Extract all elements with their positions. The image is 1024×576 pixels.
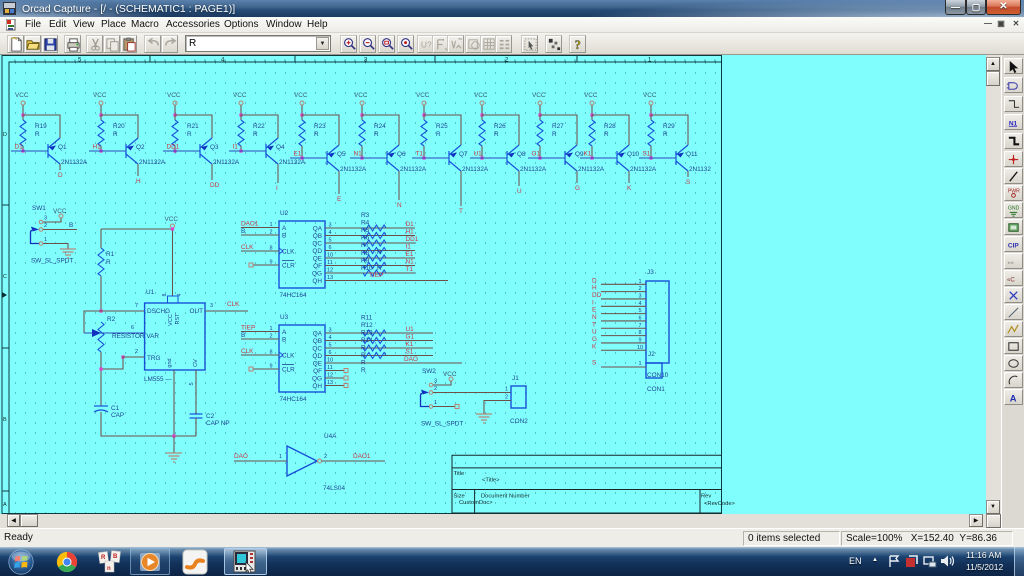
transistor Q6 2N1132A <box>387 145 399 171</box>
svg-text:R: R <box>361 367 366 374</box>
resistor R20 <box>100 115 102 120</box>
svg-text:CON1: CON1 <box>647 386 665 393</box>
svg-text:2N1132A: 2N1132A <box>340 166 367 173</box>
svg-text:QA: QA <box>313 331 323 338</box>
svg-text:9: 9 <box>638 337 641 343</box>
svg-text:S1: S1 <box>643 151 651 158</box>
svg-text:VCC: VCC <box>93 92 107 99</box>
svg-text:▸▸: ▸▸ <box>1008 259 1015 266</box>
wire U2.QC net DD1 <box>325 242 415 244</box>
resistor R6 zigzag <box>363 248 386 254</box>
svg-text:VCC: VCC <box>532 92 546 99</box>
svg-text:H1: H1 <box>93 144 102 151</box>
wire VCC stem Q9 <box>539 105 541 115</box>
switch SW2 actuator <box>421 390 429 395</box>
svg-text:CON2: CON2 <box>510 418 528 425</box>
svg-text:VCC: VCC <box>354 92 368 99</box>
svg-text:Q6: Q6 <box>397 151 406 158</box>
wire J1 pin2 to ground <box>484 401 511 415</box>
wire collector branch Q2 <box>101 115 138 138</box>
wire no-connect pad to U3.CLR <box>253 368 279 370</box>
svg-text:QB: QB <box>313 338 322 345</box>
resistor R14 zigzag <box>363 353 386 359</box>
transistor Q8 2N1132A <box>507 145 519 171</box>
wire VCC stem Q10 <box>591 105 593 115</box>
svg-text:DAO: DAO <box>404 356 418 363</box>
svg-text:74HC164: 74HC164 <box>280 292 307 299</box>
wire CV pin 5 <box>195 370 197 414</box>
svg-text:T1: T1 <box>406 266 414 273</box>
junction R21 top <box>173 113 176 116</box>
svg-text:CAP: CAP <box>111 412 124 419</box>
wire emitter stub Q10 <box>628 171 630 183</box>
svg-text:3: 3 <box>434 379 437 385</box>
wire U2.QD net I1 <box>325 250 415 252</box>
wire SW2 pin3 to VCC <box>433 381 451 385</box>
svg-text:2: 2 <box>505 395 508 401</box>
transistor Q1 2N1132A <box>48 138 60 164</box>
svg-text:1: 1 <box>279 454 282 460</box>
junction base node Q6 <box>360 156 363 159</box>
svg-text:DAO1: DAO1 <box>353 453 371 460</box>
svg-text:2: 2 <box>324 454 327 460</box>
transistor Q5 2N1132A <box>327 145 339 171</box>
wire U3.QA net U1 <box>325 332 433 334</box>
svg-text:VCC: VCC <box>584 92 598 99</box>
junction R26 top <box>480 113 483 116</box>
svg-text:G1: G1 <box>406 334 415 341</box>
wire U2.QF net N1 <box>325 265 415 267</box>
svg-text:U: U <box>517 188 522 195</box>
wire base net K1 <box>580 157 617 159</box>
junction base node Q10 <box>590 156 593 159</box>
inverter U4A 74LS04 <box>287 446 317 476</box>
svg-text:B: B <box>69 222 73 229</box>
wire emitter stub Q4 <box>277 164 279 183</box>
svg-text:1: 1 <box>44 237 47 243</box>
svg-text:Document Number: Document Number <box>481 494 530 500</box>
svg-text:QH: QH <box>312 278 322 285</box>
svg-text:DD1: DD1 <box>406 236 419 243</box>
svg-text:S: S <box>686 179 690 186</box>
svg-text:D: D <box>592 277 597 284</box>
svg-text:R: R <box>106 259 111 266</box>
svg-text:<Title>: <Title> <box>482 478 500 484</box>
resistor R7 zigzag <box>363 255 386 261</box>
IC U2 74HC164 box <box>279 221 325 288</box>
transistor Q9 2N1132A <box>565 145 577 171</box>
wire collector branch Q7 <box>424 115 461 145</box>
wire DAO1 to U2.A <box>241 227 279 229</box>
IC U3 74HC164 box <box>279 325 325 392</box>
resistor R1 <box>100 229 102 248</box>
svg-text:Q2: Q2 <box>136 144 145 151</box>
svg-text:R23: R23 <box>314 123 326 130</box>
zone dividers top <box>150 56 577 63</box>
transistor Q11 2N1132 <box>676 145 688 171</box>
junction R22 top <box>239 113 242 116</box>
wire U3.QD net S1 <box>325 355 433 357</box>
wire emitter stub Q9 <box>576 171 578 183</box>
svg-text:CLK: CLK <box>282 249 295 256</box>
svg-text:1: 1 <box>638 361 641 367</box>
svg-text:CAP NP: CAP NP <box>206 420 230 427</box>
svg-text:QF: QF <box>313 368 322 375</box>
svg-text:D: D <box>3 132 7 138</box>
svg-text:N: N <box>592 314 597 321</box>
junction TRG node <box>121 355 124 358</box>
svg-text:«C: «C <box>1007 276 1015 283</box>
wire emitter stub Q2 <box>137 164 139 176</box>
svg-text:2: 2 <box>638 286 641 292</box>
svg-text:R: R <box>101 555 106 561</box>
wire VCC stem Q7 <box>423 105 425 115</box>
svg-text:QF: QF <box>313 263 322 270</box>
svg-text:C1: C1 <box>111 405 120 412</box>
svg-text:3: 3 <box>638 293 641 299</box>
svg-text:QH: QH <box>312 383 322 390</box>
svg-text:R26: R26 <box>494 123 506 130</box>
svg-text:R29: R29 <box>663 123 675 130</box>
wire emitter stub Q1 <box>59 164 61 170</box>
svg-text:R: R <box>361 352 366 359</box>
svg-text:4: 4 <box>638 301 641 307</box>
svg-text:4: 4 <box>177 293 183 296</box>
ground symbol center <box>173 436 175 453</box>
wire U2.QE net E1 <box>325 257 415 259</box>
svg-text:6: 6 <box>131 325 134 331</box>
svg-text:R24: R24 <box>374 123 386 130</box>
svg-text:Q3: Q3 <box>210 144 219 151</box>
junction base node Q2 <box>99 149 102 152</box>
svg-text:U4A: U4A <box>324 433 337 440</box>
wire VCC stem Q1 <box>22 105 24 115</box>
wire OUT pin 3 <box>205 310 248 312</box>
resistor R24 <box>361 115 363 120</box>
wire collector branch Q4 <box>241 115 278 138</box>
svg-text:DSCHG: DSCHG <box>147 308 170 315</box>
resistor R29 <box>650 115 652 120</box>
svg-text:VCC: VCC <box>15 92 29 99</box>
svg-text:R: R <box>253 131 258 138</box>
svg-text:TIEP: TIEP <box>369 272 383 279</box>
svg-text:D: D <box>58 172 63 179</box>
wire U3.QF stub pad <box>325 370 344 372</box>
svg-text:DD: DD <box>592 292 602 299</box>
svg-text:C: C <box>3 274 7 280</box>
svg-text:E1: E1 <box>406 251 414 258</box>
svg-text:Size: Size <box>454 494 465 500</box>
op-amp U1 LM555 box <box>145 303 205 370</box>
resistor R11 zigzag <box>363 330 386 336</box>
svg-text:2: 2 <box>135 349 138 355</box>
svg-text:VCC: VCC <box>416 92 430 99</box>
wire TRG pin 2 <box>101 357 145 369</box>
ground symbol J1 <box>476 414 492 423</box>
wire base net U1 <box>470 157 507 159</box>
svg-text:1: 1 <box>638 279 641 285</box>
svg-text:VCC: VCC <box>167 92 181 99</box>
svg-text:S1: S1 <box>406 349 414 356</box>
junction R29 top <box>649 113 652 116</box>
wire base net N1 <box>350 157 387 159</box>
wire C2 bottom <box>195 418 197 436</box>
svg-text:A: A <box>282 225 287 232</box>
resistor R3 zigzag <box>363 225 386 231</box>
wire THR pin 6 / wiper <box>84 332 145 334</box>
svg-text:U1: U1 <box>146 289 155 296</box>
wire DSCHG pin 7 <box>84 311 145 333</box>
svg-text:B: B <box>282 337 286 344</box>
svg-text:CIP: CIP <box>1008 242 1020 249</box>
svg-text:R2: R2 <box>107 316 116 323</box>
svg-text:OUT: OUT <box>190 308 204 315</box>
wire collector branch Q3 <box>175 115 212 138</box>
svg-text:E: E <box>592 307 596 314</box>
wire base net G1 <box>528 157 565 159</box>
svg-text:TIEP: TIEP <box>241 325 255 332</box>
svg-text:3: 3 <box>44 216 47 222</box>
switch SW1 actuator <box>31 227 39 232</box>
svg-text:Q11: Q11 <box>686 151 698 158</box>
svg-text:RESISTOR VAR: RESISTOR VAR <box>112 333 159 340</box>
svg-text:G: G <box>592 336 597 343</box>
svg-text:R: R <box>663 131 668 138</box>
svg-text:CLR: CLR <box>282 263 295 270</box>
resistor R25 <box>423 115 425 120</box>
svg-text:R: R <box>377 265 382 272</box>
resistor R8 zigzag <box>363 263 386 269</box>
svg-text:QD: QD <box>312 248 322 255</box>
svg-text:5: 5 <box>638 308 641 314</box>
svg-text:VCC: VCC <box>233 92 247 99</box>
resistor R28 <box>591 115 593 120</box>
wire VCC stem Q11 <box>650 105 652 115</box>
svg-text:QC: QC <box>312 346 322 353</box>
svg-text:R: R <box>187 131 192 138</box>
svg-text:B: B <box>3 417 7 423</box>
wire emitter stub Q5 <box>338 171 340 194</box>
page border frame <box>2 56 722 515</box>
junction R27 top <box>538 113 541 116</box>
svg-text:2N1132A: 2N1132A <box>279 159 306 166</box>
wire SW1 pin3 to VCC <box>43 218 61 222</box>
svg-text:QE: QE <box>313 361 322 368</box>
svg-text:U1: U1 <box>474 151 483 158</box>
svg-text:Q5: Q5 <box>337 151 346 158</box>
svg-text:R: R <box>374 131 379 138</box>
svg-text:SW1: SW1 <box>32 205 46 212</box>
svg-text:U1: U1 <box>406 326 415 333</box>
svg-text:QA: QA <box>313 226 323 233</box>
svg-text:DD1: DD1 <box>167 144 180 151</box>
junction ground rail <box>172 434 175 437</box>
svg-text:VCC: VCC <box>474 92 488 99</box>
svg-text:R28: R28 <box>604 123 616 130</box>
wire J2 pin 1 net S <box>601 366 646 368</box>
svg-text:R: R <box>377 249 382 256</box>
junction base node Q8 <box>480 156 483 159</box>
svg-text:R: R <box>314 131 319 138</box>
svg-text:R22: R22 <box>253 123 265 130</box>
svg-text:B: B <box>241 332 245 339</box>
wire U3.QE net DAO <box>325 362 462 364</box>
wire base net DD1 <box>163 150 200 152</box>
svg-text:74HC164: 74HC164 <box>280 396 307 403</box>
svg-text:VCC: VCC <box>165 216 179 223</box>
svg-text:I1: I1 <box>406 244 412 251</box>
svg-text:U?: U? <box>421 39 432 49</box>
svg-text:D1: D1 <box>406 221 415 228</box>
svg-text:C2: C2 <box>206 413 215 420</box>
wire VCC stem Q3 <box>174 105 176 115</box>
wire C1 to ground rail <box>101 412 196 436</box>
svg-text:R: R <box>35 131 40 138</box>
wire CLK to U3.CLK <box>241 354 279 356</box>
transistor Q7 2N1132A <box>449 145 461 171</box>
svg-text:2N1132A: 2N1132A <box>462 166 489 173</box>
wire J3 pin 10 net K <box>601 349 646 351</box>
wire J3 pin 7 net T <box>601 327 646 329</box>
wire base net H1 <box>89 150 126 152</box>
title block frame <box>452 455 722 514</box>
svg-text:QG: QG <box>312 271 322 278</box>
svg-text:R1: R1 <box>106 251 115 258</box>
svg-text:RST: RST <box>175 313 181 325</box>
svg-text:N1: N1 <box>406 259 415 266</box>
wire CLK to U2.CLK <box>241 250 279 252</box>
svg-text:QB: QB <box>313 233 322 240</box>
svg-text:B: B <box>113 554 118 560</box>
wire U2.QH net TIEP <box>325 280 448 282</box>
wire VCC rail U1 <box>172 228 174 296</box>
svg-text:2N1132A: 2N1132A <box>213 159 240 166</box>
svg-text:I: I <box>276 185 278 192</box>
svg-text:R10: R10 <box>361 265 373 272</box>
svg-text:R: R <box>604 131 609 138</box>
wire J3 pin 8 net U <box>601 335 646 337</box>
wire J3 pin 2 net H <box>601 291 646 293</box>
svg-text:R21: R21 <box>187 123 199 130</box>
svg-text:7: 7 <box>638 323 641 329</box>
wire no-connect pad to U2.CLR <box>253 264 279 266</box>
svg-text:R3: R3 <box>361 212 370 219</box>
wire TIEP to U3.A <box>241 331 279 333</box>
svg-text:T1: T1 <box>416 151 424 158</box>
svg-text:VCC: VCC <box>643 92 657 99</box>
capacitor C2 (CAP NP) <box>190 414 203 418</box>
svg-text:R: R <box>361 360 366 367</box>
resistor R13 zigzag <box>363 345 386 351</box>
svg-text:VCC: VCC <box>168 314 174 326</box>
svg-text:8: 8 <box>638 330 641 336</box>
svg-text:J3: J3 <box>647 269 654 276</box>
svg-text:QD: QD <box>312 353 322 360</box>
pins 8 4 bracket U1 <box>168 296 179 303</box>
svg-text:DAO1: DAO1 <box>241 221 259 228</box>
svg-text:74LS04: 74LS04 <box>323 485 345 492</box>
wire U3.QC net K1 <box>325 347 433 349</box>
svg-text:2N1132: 2N1132 <box>689 166 711 173</box>
svg-text:I1: I1 <box>233 144 239 151</box>
svg-text:2N1132A: 2N1132A <box>520 166 547 173</box>
svg-text:2N1132A: 2N1132A <box>400 166 427 173</box>
svg-text:QE: QE <box>313 256 322 263</box>
svg-text:R6: R6 <box>361 235 370 242</box>
svg-text:CLK: CLK <box>282 353 295 360</box>
wire base net D1 <box>11 150 48 152</box>
wire U3.QG stub pad <box>325 377 344 379</box>
svg-text:R8: R8 <box>361 250 370 257</box>
wire collector branch Q1 <box>23 115 60 138</box>
svg-text:CV: CV <box>193 359 199 367</box>
svg-text:Q10: Q10 <box>627 151 640 158</box>
wire VCC stem Q8 <box>481 105 483 115</box>
junction base node Q5 <box>300 156 303 159</box>
resistor R26 <box>481 115 483 120</box>
wire emitter stub Q3 <box>211 164 213 180</box>
wire SW1 pin1 to ground <box>43 244 68 250</box>
svg-text:A: A <box>282 329 287 336</box>
resistor R9 zigzag <box>363 270 386 276</box>
junction base node Q4 <box>239 149 242 152</box>
svg-text:R13: R13 <box>361 330 373 337</box>
wire SW1 pin2 net B <box>43 229 77 231</box>
svg-text:K1: K1 <box>584 151 592 158</box>
svg-text:U3: U3 <box>280 314 289 321</box>
svg-text:DAO: DAO <box>234 453 248 460</box>
wire J3 pin 4 net I <box>601 305 646 307</box>
svg-text:CustomDoc>: CustomDoc> <box>459 500 493 506</box>
svg-text:B: B <box>241 228 245 235</box>
wire collector branch Q10 <box>592 115 629 145</box>
svg-text:1: 1 <box>434 400 437 406</box>
resistor R12 zigzag <box>363 338 386 344</box>
svg-text:R20: R20 <box>113 123 125 130</box>
zone dividers left <box>2 205 9 491</box>
svg-text:TRG: TRG <box>147 355 161 362</box>
svg-text:R: R <box>494 131 499 138</box>
wire emitter stub Q8 <box>518 171 520 186</box>
svg-text:S: S <box>592 360 596 367</box>
svg-text:G: G <box>575 185 580 192</box>
svg-text:n: n <box>107 566 111 572</box>
svg-text:2: 2 <box>434 386 437 392</box>
svg-text:E: E <box>337 196 341 203</box>
svg-text:A: A <box>3 502 7 508</box>
wire collector branch Q6 <box>362 115 399 145</box>
svg-text:R: R <box>361 345 366 352</box>
wire B to U2.B <box>241 234 279 236</box>
svg-text:J2: J2 <box>648 351 655 358</box>
junction base node Q3 <box>173 149 176 152</box>
svg-text:3: 3 <box>210 303 213 309</box>
svg-text:R19: R19 <box>35 123 47 130</box>
wire VCC stem Q2 <box>100 105 102 115</box>
svg-text:Rev: Rev <box>701 494 711 500</box>
resistor R5 zigzag <box>363 240 386 246</box>
junction R19 top <box>21 113 24 116</box>
svg-text:R25: R25 <box>436 123 448 130</box>
wire SW2 pin2 to J1 pin1 <box>433 392 511 394</box>
svg-text:R5: R5 <box>361 227 370 234</box>
wire emitter stub Q11 <box>687 171 689 177</box>
svg-text:Q8: Q8 <box>517 151 526 158</box>
svg-text:H: H <box>136 178 141 185</box>
svg-text:U2: U2 <box>280 210 289 217</box>
junction base node Q1 <box>21 149 24 152</box>
wire emitter stub Q6 <box>398 171 400 200</box>
